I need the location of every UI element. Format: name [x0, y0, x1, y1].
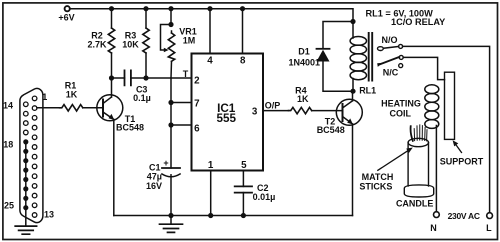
resistor R1: [60, 105, 83, 111]
svg-text:5: 5: [241, 160, 247, 171]
wire: common to heating coil support: [403, 57, 444, 79]
wire: C3 to pin 2: [131, 77, 192, 79]
svg-text:STICKS: STICKS: [359, 182, 392, 192]
support rod: [445, 72, 455, 139]
node: rail/R2: [109, 6, 114, 11]
connector pins left column (14-25): [24, 102, 29, 135]
svg-text:HEATING: HEATING: [381, 99, 421, 109]
svg-text:1: 1: [42, 92, 47, 102]
svg-text:2: 2: [194, 76, 200, 87]
relay coil RL1: [352, 22, 354, 39]
arrow to match sticks: [378, 150, 409, 170]
svg-text:0.01µ: 0.01µ: [253, 192, 276, 202]
transistor T1: [97, 95, 123, 121]
resistor R3: [145, 9, 147, 28]
node: rail/VR1: [168, 6, 173, 11]
wire: pin 6: [171, 124, 192, 126]
svg-text:BC548: BC548: [116, 123, 144, 133]
wire: pin 8: [242, 9, 244, 54]
connector pins right column (1-13): [32, 96, 37, 217]
relay core bars: [369, 33, 373, 81]
resistor R4: [289, 107, 312, 113]
node: relay top / D1: [350, 19, 355, 24]
wire: T2 emitter down: [352, 124, 354, 216]
wire: ground bus through pins 18-25: [25, 142, 27, 226]
connector CN1 DB25 outline: [20, 88, 43, 222]
svg-text:+: +: [163, 158, 168, 168]
wire: collector node to C3: [112, 77, 125, 79]
diode D1: [317, 48, 330, 50]
candle: [408, 138, 428, 146]
relay contact N/C terminal: [399, 64, 403, 68]
ground under C1: [160, 224, 183, 232]
node: D1/coil/T2 collector: [350, 89, 355, 94]
svg-text:14: 14: [3, 100, 13, 110]
svg-text:SUPPORT: SUPPORT: [440, 157, 484, 167]
svg-text:1: 1: [208, 160, 214, 171]
svg-text:4: 4: [207, 56, 213, 67]
wire: pin 4: [209, 9, 211, 54]
svg-text:7: 7: [194, 98, 200, 109]
wire: N/O to L terminal: [403, 46, 490, 212]
wire: pin 7: [171, 102, 192, 104]
wire: pin 3 output: [263, 110, 289, 112]
svg-text:555: 555: [216, 112, 236, 125]
svg-text:N/O: N/O: [381, 35, 397, 45]
node: C1/rail: [168, 213, 173, 218]
wire: bottom ground rail: [114, 215, 353, 217]
wire: node to D1 top: [323, 22, 353, 49]
svg-text:18: 18: [3, 140, 13, 150]
transistor T2: [336, 99, 362, 125]
svg-text:6: 6: [194, 124, 200, 135]
node: pin1/rail: [208, 213, 213, 218]
svg-text:25: 25: [4, 201, 14, 211]
svg-text:N/C: N/C: [383, 68, 399, 78]
svg-text:3: 3: [252, 106, 258, 117]
wire: pin 1 to ground rail: [210, 171, 212, 216]
svg-text:MATCH: MATCH: [362, 172, 394, 182]
wire: T2 collector up: [352, 91, 354, 101]
svg-text:T: T: [183, 69, 189, 79]
node: R3 / pin2 wire: [143, 75, 148, 80]
svg-text:0.1µ: 0.1µ: [133, 93, 151, 103]
arrow to support: [455, 143, 462, 153]
terminal N: [434, 212, 440, 218]
svg-text:13: 13: [44, 209, 54, 219]
svg-text:1M: 1M: [183, 35, 196, 45]
capacitor C1 electrolytic: [162, 167, 180, 169]
svg-text:16V: 16V: [146, 181, 162, 191]
node: rail/pin8: [240, 6, 245, 11]
svg-text:O/P: O/P: [265, 100, 281, 110]
wire: heating coil to N terminal: [435, 126, 437, 212]
relay contact N/O terminal: [378, 47, 384, 51]
svg-text:1C/O RELAY: 1C/O RELAY: [391, 17, 445, 27]
heating coil: [425, 85, 439, 129]
node: pin7 junction: [168, 100, 173, 105]
svg-text:L: L: [486, 223, 492, 233]
svg-text:COIL: COIL: [390, 108, 412, 118]
svg-text:1K: 1K: [66, 89, 78, 99]
node: rail/R3: [143, 6, 148, 11]
power terminal +6V: [65, 6, 70, 11]
match sticks: [414, 125, 427, 141]
svg-text:+6V: +6V: [58, 13, 74, 23]
svg-text:2.7K: 2.7K: [87, 39, 107, 49]
op IC1 555 box: [192, 54, 264, 171]
svg-text:BC548: BC548: [317, 125, 345, 135]
svg-text:N: N: [430, 223, 437, 233]
node: T1 collector / R2 / C3: [109, 75, 114, 80]
capacitor C3: [125, 70, 131, 85]
ground under connector: [15, 226, 36, 234]
svg-text:CANDLE: CANDLE: [396, 198, 434, 208]
wire: pin 5 to C2: [242, 171, 244, 187]
svg-text:230V AC: 230V AC: [448, 211, 480, 221]
preset VR1: [170, 9, 172, 25]
node: pin6 junction: [168, 122, 173, 127]
resistor R2: [111, 9, 113, 28]
relay armature common: [379, 57, 400, 65]
wire: +6V top rail: [71, 9, 353, 22]
wire: T1 collector up: [111, 78, 113, 97]
svg-text:RL1: RL1: [359, 85, 376, 95]
svg-text:1N4001: 1N4001: [289, 57, 321, 67]
svg-text:8: 8: [240, 56, 246, 67]
terminal L: [487, 213, 493, 219]
wire: T1 emitter down: [113, 120, 115, 216]
wire: pin2 of connector to R1: [37, 107, 60, 109]
wire: VR1 to pins 7/6 and C1: [170, 78, 172, 168]
node: C2/rail: [241, 213, 246, 218]
capacitor C2: [235, 186, 252, 192]
node: rail/pin4: [207, 6, 212, 11]
svg-text:D1: D1: [298, 46, 310, 56]
svg-text:10K: 10K: [122, 39, 139, 49]
svg-text:1K: 1K: [297, 94, 309, 104]
connector grounded pins 18-25 filled: [23, 139, 28, 210]
